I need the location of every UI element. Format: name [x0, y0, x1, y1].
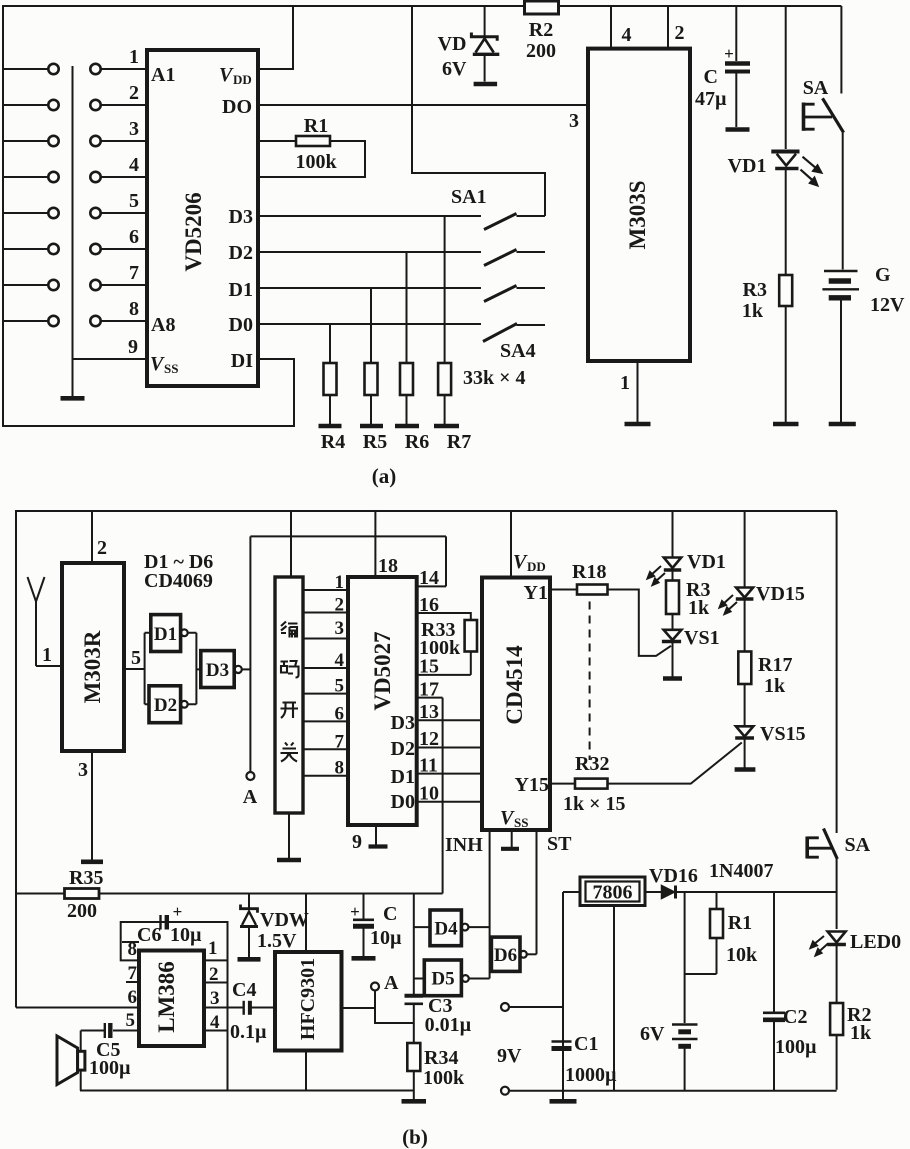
svg-text:1k: 1k: [850, 1022, 872, 1044]
diode VD16 1N4007: [645, 860, 837, 899]
svg-text:LM386: LM386: [154, 961, 179, 1033]
wire: D1,D2 outputs to D3 input: [188, 633, 201, 705]
resistor R3 (a) 1k: [742, 170, 792, 422]
IC VD5027: [348, 577, 417, 825]
ground: R34 rail: [402, 1091, 427, 1102]
svg-text:100µ: 100µ: [89, 1057, 131, 1079]
svg-text:1: 1: [620, 372, 630, 394]
svg-text:VDW: VDW: [260, 909, 309, 931]
ground: capacitor C: [726, 127, 750, 132]
IC M303S: [588, 49, 690, 361]
wire: VD5027 pin 18: [375, 511, 398, 577]
svg-text:VS15: VS15: [760, 723, 806, 745]
svg-text:200: 200: [67, 900, 97, 922]
svg-text:D0: D0: [391, 791, 415, 813]
node: 9V minus terminal: [497, 1045, 522, 1095]
wire: D3 output to node A line: [242, 668, 251, 670]
svg-text:HFC9301: HFC9301: [297, 958, 319, 1040]
svg-text:V: V: [150, 353, 165, 375]
svg-text:1k × 15: 1k × 15: [563, 793, 626, 815]
svg-text:11: 11: [419, 755, 438, 777]
svg-text:VD5027: VD5027: [370, 631, 395, 710]
svg-text:C: C: [383, 903, 397, 925]
node: 9V plus terminal: [501, 1003, 563, 1011]
node A terminal (right): [371, 972, 399, 994]
svg-text:2: 2: [97, 537, 107, 559]
svg-text:LED0: LED0: [850, 931, 901, 953]
svg-text:DD: DD: [233, 72, 252, 87]
svg-text:VD15: VD15: [756, 583, 805, 605]
resistor R3 (b) 1k: [666, 572, 710, 630]
wire: row 8 input: [3, 298, 147, 326]
svg-text:D1: D1: [229, 279, 253, 301]
ground: C1 rail: [550, 1099, 577, 1104]
wire: row 2 input: [3, 82, 147, 110]
svg-text:G: G: [875, 264, 891, 286]
svg-text:2: 2: [675, 22, 685, 44]
wire: LM386 pin 7 stub: [126, 981, 139, 983]
wire: CD4514 VSS to ground: [500, 807, 528, 847]
svg-text:DD: DD: [527, 559, 546, 574]
svg-text:V: V: [500, 807, 515, 829]
svg-text:DI: DI: [231, 350, 253, 372]
svg-text:SA: SA: [803, 77, 829, 99]
wire: M303R pin 2: [92, 511, 107, 563]
svg-text:VD1: VD1: [687, 551, 726, 573]
svg-text:6V: 6V: [640, 1023, 665, 1045]
wire: data bus D2 pin 12: [417, 728, 482, 750]
ground: VS15: [735, 767, 756, 772]
svg-text:R6: R6: [405, 431, 429, 453]
wire: M303R pin 5 to inverters: [124, 633, 151, 705]
thyristor VS15: [735, 723, 805, 768]
resistor R2 (b) 1k: [830, 946, 872, 1090]
capacitor C 47u: [695, 6, 750, 127]
svg-text:14: 14: [419, 567, 439, 589]
ground: R5: [360, 424, 383, 429]
ground: encoder switch box: [277, 858, 301, 863]
wire: bottom supply rail (right): [509, 1090, 837, 1092]
svg-text:47µ: 47µ: [695, 88, 727, 110]
svg-text:3: 3: [129, 118, 139, 140]
svg-text:D0: D0: [229, 314, 253, 336]
svg-text:1N4007: 1N4007: [709, 860, 773, 882]
wire: encoder pins 1-8 to VD5027: [303, 572, 348, 779]
svg-text:5: 5: [131, 647, 141, 669]
svg-text:R2: R2: [529, 19, 553, 41]
wire: 7806 ground pin: [613, 906, 615, 1091]
svg-text:CD4069: CD4069: [144, 570, 213, 592]
wire: D2 line with switch SA2: [258, 250, 545, 266]
svg-text:D6: D6: [494, 945, 517, 966]
ground: keypad bus: [61, 396, 85, 401]
svg-text:R17: R17: [758, 654, 792, 676]
svg-text:9V: 9V: [497, 1045, 522, 1067]
zener diode VDW 1.5V: [240, 894, 309, 958]
svg-text:17: 17: [419, 679, 439, 701]
wire: D1 line with switch SA3: [258, 286, 545, 302]
svg-text:V: V: [513, 551, 528, 573]
svg-text:R7: R7: [447, 431, 471, 453]
wire: VD5027 pin 9 to ground: [352, 825, 376, 853]
wire: ST line from CD4514: [536, 830, 538, 954]
svg-text:13: 13: [419, 701, 439, 723]
glyph: ma (码): [281, 661, 299, 678]
svg-text:5: 5: [129, 190, 139, 212]
ground: VS1: [663, 676, 682, 681]
resistor R34 100k: [407, 1004, 465, 1091]
ground: VD5027 pin 9: [369, 844, 388, 848]
wire: top rail to switch column: [412, 6, 545, 216]
resistor R18 1k: [550, 561, 608, 595]
svg-text:C: C: [704, 66, 718, 88]
wire: R35 supply line: [16, 893, 443, 895]
svg-text:15: 15: [419, 656, 439, 678]
switch SA (b) pushbutton: [807, 511, 870, 859]
svg-text:200: 200: [526, 40, 556, 62]
svg-text:+: +: [350, 902, 360, 921]
node: LM386 pin labels: [126, 938, 221, 1033]
svg-text:VD1: VD1: [728, 155, 767, 177]
wire: outer loop of circuit (a): [3, 6, 841, 426]
svg-text:D1: D1: [154, 624, 177, 645]
resistor R7 33k: [438, 216, 471, 453]
svg-text:INH: INH: [445, 834, 483, 856]
svg-text:3: 3: [210, 988, 220, 1009]
wire: M303S pin 2: [668, 6, 685, 49]
wire: R32 to VS15 gate: [608, 743, 742, 784]
svg-text:A: A: [243, 786, 258, 808]
LED VD1 (a): [728, 6, 822, 185]
svg-text:R34: R34: [424, 1047, 458, 1069]
svg-text:2: 2: [129, 82, 139, 104]
inverter D6: [491, 937, 536, 971]
svg-text:16: 16: [419, 594, 439, 616]
svg-text:A1: A1: [151, 64, 175, 86]
wire: M303R pin 1: [36, 644, 62, 666]
IC CD4514: [482, 578, 550, 831]
svg-text:D3: D3: [206, 660, 229, 681]
ground: C 10u: [352, 956, 376, 961]
resistor R1: [258, 115, 365, 177]
voltage regulator 7806: [580, 877, 645, 906]
svg-text:0.01µ: 0.01µ: [425, 1014, 472, 1036]
thyristor VS1: [662, 627, 720, 677]
switch SA (a) pushbutton: [803, 6, 844, 133]
svg-text:6: 6: [335, 703, 345, 724]
svg-text:7806: 7806: [593, 882, 633, 904]
wire: HFC9301 bottom to rail: [305, 1051, 307, 1091]
wire: D3 line with switch SA1: [258, 186, 545, 230]
svg-text:D3: D3: [391, 712, 415, 734]
wire: bottom rail (left): [80, 1090, 414, 1092]
svg-text:VD: VD: [438, 33, 467, 55]
svg-text:R1: R1: [304, 115, 328, 137]
svg-text:D2: D2: [229, 242, 253, 264]
svg-text:4: 4: [622, 24, 632, 46]
svg-text:8: 8: [129, 298, 139, 320]
wire: CD4514 VDD pin: [511, 511, 546, 578]
glyph: kai (开): [281, 703, 299, 719]
svg-text:R3: R3: [743, 279, 767, 301]
svg-text:1.5V: 1.5V: [257, 930, 297, 952]
svg-text:18: 18: [378, 555, 398, 577]
battery 6V: [640, 892, 698, 1091]
ground: R3: [773, 422, 799, 427]
resistor R17 1k: [738, 601, 792, 727]
svg-text:10µ: 10µ: [170, 924, 202, 946]
resistor R6 33k: [400, 252, 429, 453]
svg-text:R5: R5: [363, 431, 387, 453]
svg-text:R18: R18: [572, 561, 606, 583]
svg-text:9: 9: [128, 336, 138, 358]
capacitor C5 100u: [81, 1023, 139, 1079]
svg-text:CD4514: CD4514: [502, 645, 527, 725]
resistor R35 200: [65, 867, 104, 922]
wire: row 5 input: [3, 190, 147, 218]
wire: DO pin to M303S pin 3: [258, 104, 590, 106]
IC HFC9301: [275, 952, 342, 1051]
svg-text:1: 1: [42, 644, 52, 666]
svg-text:0.1µ: 0.1µ: [230, 1021, 267, 1043]
resistor R5 33k: [363, 288, 387, 453]
svg-text:ST: ST: [547, 833, 572, 855]
node: label D1~D6 CD4069: [144, 551, 213, 592]
ground: M303R pin 3: [81, 859, 103, 864]
ground: R4: [319, 424, 342, 429]
svg-text:100µ: 100µ: [775, 1036, 817, 1058]
svg-text:D2: D2: [391, 738, 415, 760]
encoder switch box (bian ma kai guan): [275, 511, 303, 858]
wire: dashed Y2..Y14 indication: [589, 602, 591, 761]
wire: R18 to VS1 gate: [608, 590, 672, 656]
resistor R1 10k: [685, 892, 758, 974]
wire: 7806 input from 9V: [563, 892, 580, 1091]
inverter D2: [149, 686, 188, 723]
svg-text:8: 8: [335, 758, 345, 779]
svg-text:6: 6: [128, 987, 138, 1008]
svg-text:D1: D1: [391, 766, 415, 788]
svg-text:8: 8: [128, 939, 138, 960]
wire: data bus D1 pin 11: [417, 755, 482, 777]
svg-text:VS1: VS1: [684, 627, 720, 649]
svg-text:5: 5: [126, 1010, 136, 1031]
svg-text:Y1: Y1: [524, 582, 548, 604]
inverter D3: [201, 651, 242, 688]
svg-text:SS: SS: [164, 361, 178, 376]
svg-text:5: 5: [335, 676, 345, 697]
wire: SA to supply node and LED0: [836, 859, 838, 929]
svg-text:SA4: SA4: [500, 340, 536, 362]
svg-text:SS: SS: [514, 815, 528, 830]
svg-text:VD16: VD16: [649, 865, 698, 887]
capacitor C 10u: [350, 894, 402, 957]
ground: R7: [434, 424, 459, 429]
svg-text:3: 3: [569, 110, 579, 132]
svg-text:R35: R35: [69, 867, 103, 889]
svg-text:1: 1: [129, 46, 139, 68]
svg-text:7: 7: [128, 963, 138, 984]
svg-text:3: 3: [335, 618, 345, 639]
wire: HFC9301 top to supply line: [305, 894, 307, 953]
svg-text:7: 7: [335, 731, 345, 752]
svg-text:2: 2: [335, 595, 345, 616]
svg-text:7: 7: [129, 262, 139, 284]
ground: M303S pin 1: [625, 422, 651, 427]
svg-text:6: 6: [129, 226, 139, 248]
capacitor C4 0.1u: [204, 979, 275, 1043]
svg-text:A: A: [384, 972, 399, 994]
wire: VD5027 pin 17 to INH node: [414, 679, 443, 996]
ground: zener VD: [474, 82, 498, 87]
svg-text:12: 12: [419, 728, 439, 750]
wire: D0 line with switch SA4: [258, 324, 545, 390]
IC LM386: [139, 951, 204, 1047]
wire: data bus D0 pin 10: [417, 783, 482, 805]
wire: INH line from CD4514: [490, 830, 492, 979]
svg-text:Y15: Y15: [515, 774, 549, 796]
svg-text:33k × 4: 33k × 4: [463, 367, 526, 389]
wire: VDD pin to top rail: [258, 6, 293, 69]
svg-text:1: 1: [208, 938, 218, 959]
wire: M303S pin 1: [620, 361, 638, 422]
svg-text:100k: 100k: [423, 1067, 465, 1089]
svg-text:SA1: SA1: [451, 186, 487, 208]
svg-text:D2: D2: [154, 695, 177, 716]
wire: common bus to Vss pin 9: [73, 66, 148, 396]
speaker: [57, 1031, 85, 1091]
IC M303R: [62, 563, 124, 751]
svg-text:M303R: M303R: [80, 630, 105, 703]
svg-text:C2: C2: [783, 1006, 807, 1028]
wire: row 7 input: [3, 262, 147, 290]
resistor R4 33k: [321, 324, 345, 453]
glyph: guan (关): [281, 743, 299, 762]
wire: M303S pin 4: [611, 6, 632, 49]
svg-text:D3: D3: [229, 206, 253, 228]
inverter D4: [414, 910, 490, 946]
svg-text:100k: 100k: [295, 151, 337, 173]
svg-text:4: 4: [129, 154, 139, 176]
svg-text:(b): (b): [402, 1125, 428, 1149]
svg-text:6V: 6V: [442, 58, 467, 80]
svg-text:10k: 10k: [726, 944, 758, 966]
wire: outer border of circuit (b): [16, 511, 837, 1008]
svg-text:10µ: 10µ: [370, 927, 402, 949]
capacitor C6 10u bypass loop pin8-pin1: [121, 902, 228, 960]
svg-text:+: +: [173, 902, 183, 921]
svg-text:C4: C4: [232, 979, 256, 1001]
svg-text:(a): (a): [372, 464, 397, 488]
svg-text:+: +: [724, 44, 734, 63]
svg-text:D5: D5: [431, 969, 454, 990]
wire: M303R pin 3 to ground: [78, 751, 92, 860]
svg-text:4: 4: [335, 650, 345, 671]
svg-text:D4: D4: [434, 919, 458, 940]
LED VD1 (b): [648, 511, 726, 585]
capacitor C2 100u: [763, 892, 817, 1091]
svg-text:C1: C1: [574, 1033, 598, 1055]
svg-text:1000µ: 1000µ: [565, 1064, 617, 1086]
op-amp U1: IC VD5206: [147, 50, 258, 386]
svg-text:1: 1: [335, 572, 345, 593]
svg-text:DO: DO: [222, 96, 252, 118]
resistor R32 1k: [550, 753, 626, 815]
svg-text:A8: A8: [151, 314, 175, 336]
wire: node A line to VD5027 pin 14: [250, 536, 446, 771]
battery G 12V: [822, 133, 905, 422]
wire: row 1 input: [3, 46, 147, 74]
svg-text:1k: 1k: [764, 675, 786, 697]
svg-text:R32: R32: [575, 753, 609, 775]
svg-text:9: 9: [352, 831, 362, 853]
svg-text:12V: 12V: [870, 294, 905, 316]
svg-text:SA: SA: [845, 834, 871, 856]
LED LED0: [811, 931, 902, 956]
ground: R6: [395, 424, 419, 429]
svg-text:R1: R1: [728, 912, 752, 934]
ground: CD4514 VSS: [501, 847, 519, 851]
wire: data bus D3 pin 13: [417, 701, 482, 723]
svg-text:1k: 1k: [688, 597, 710, 619]
wire: LM386 pin 6 from border: [16, 1007, 139, 1009]
svg-text:10: 10: [419, 783, 439, 805]
glyph: bian (编): [281, 622, 298, 638]
svg-text:3: 3: [78, 759, 88, 781]
ground: battery G: [829, 422, 856, 427]
ground: VDW: [238, 957, 261, 962]
resistor R33 100k: [417, 594, 477, 678]
inverter D1: [151, 615, 188, 652]
capacitor C3 0.01u: [405, 995, 472, 1036]
svg-text:M303S: M303S: [625, 181, 650, 250]
wire: row 6 input: [3, 226, 147, 254]
wire: row 3 input: [3, 118, 147, 146]
node A terminal (left): [243, 772, 258, 808]
wire: LM386 pin 2 and pin 4 to ground rail: [204, 960, 228, 1090]
svg-text:1k: 1k: [742, 300, 764, 322]
LED VD15: [720, 511, 805, 614]
resistor R2 200: [525, 1, 559, 62]
zener diode VD 6V: [438, 6, 500, 82]
capacitor C1 1000u: [552, 1033, 618, 1099]
wire: row 4 input: [3, 154, 147, 182]
svg-text:C6: C6: [137, 924, 161, 946]
svg-text:V: V: [219, 64, 234, 86]
wire: HFC9301 output to node A and C3: [342, 991, 414, 1024]
svg-text:VD5206: VD5206: [181, 192, 206, 271]
inverter D5: [414, 960, 490, 996]
antenna: [28, 577, 45, 666]
svg-text:R4: R4: [321, 431, 345, 453]
